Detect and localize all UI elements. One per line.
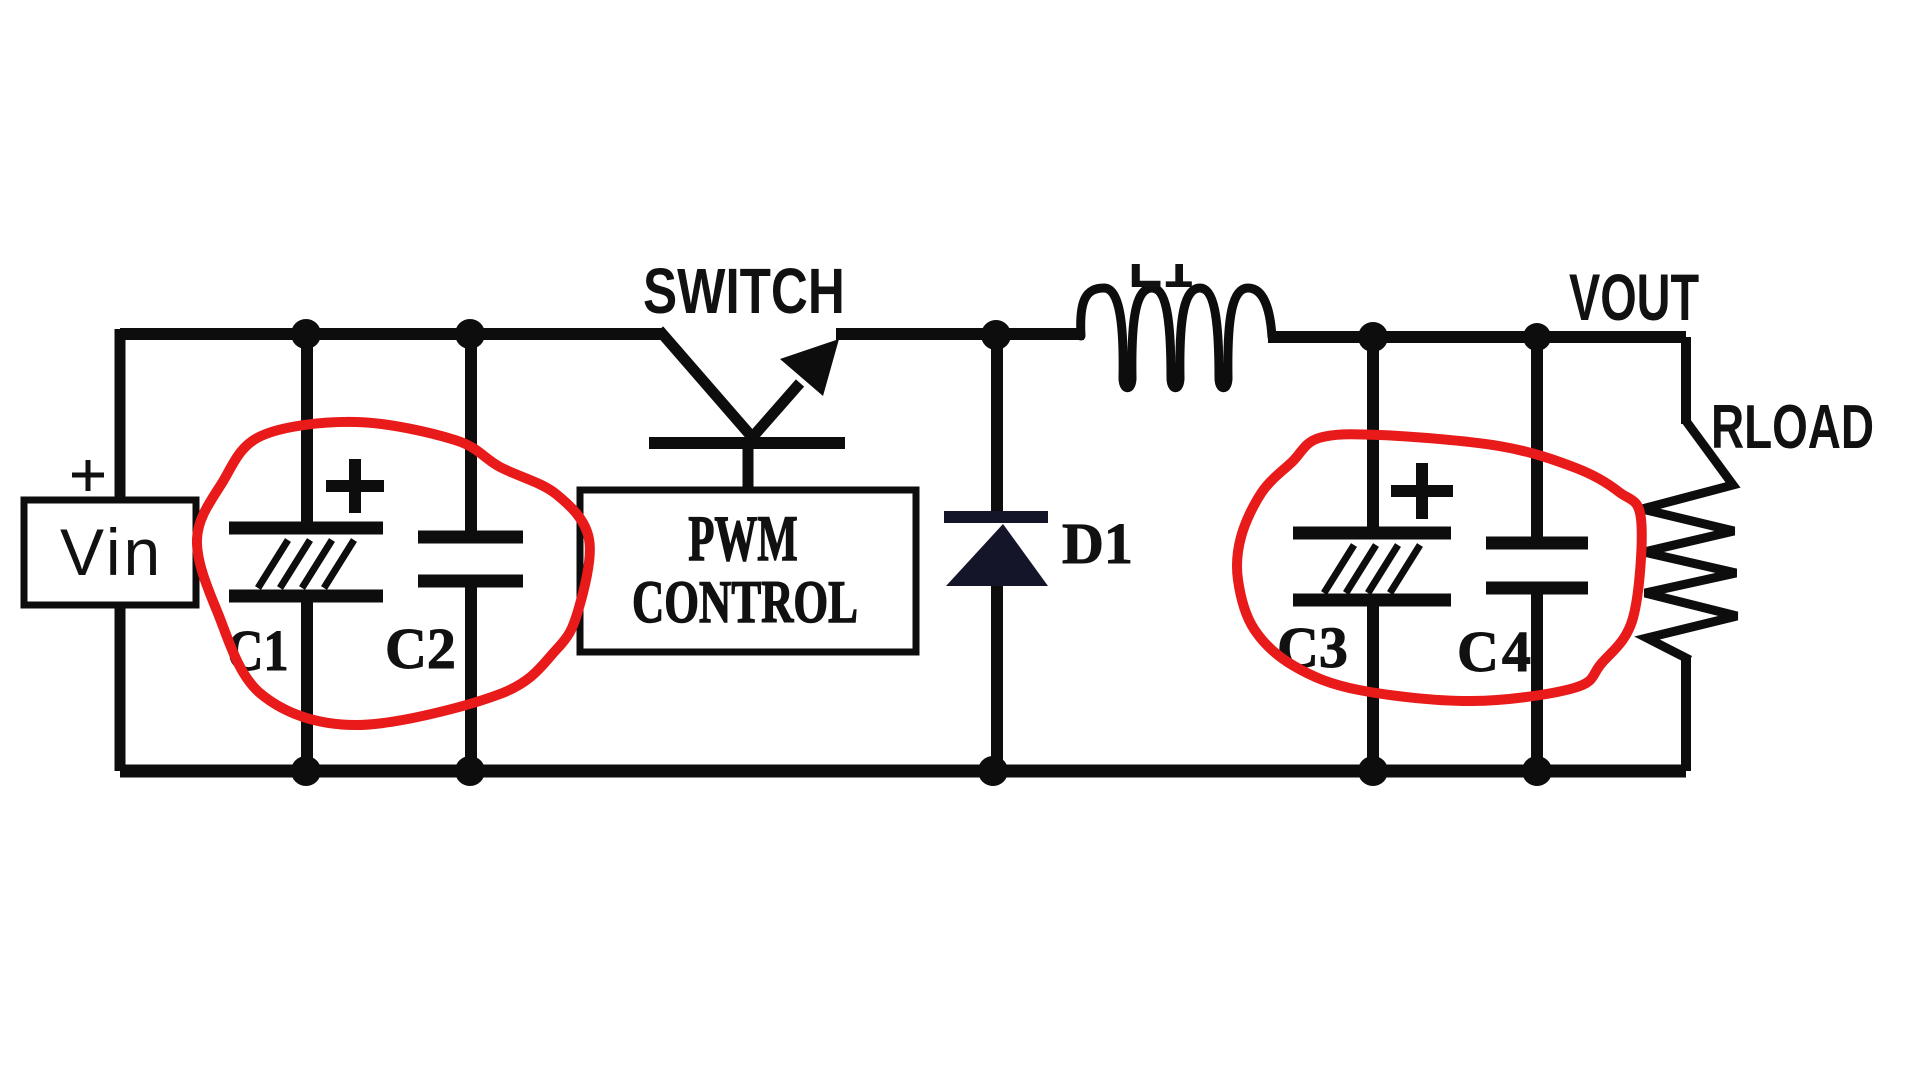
- capacitor C4 top plate: [1486, 537, 1588, 550]
- svg-text:D1: D1: [1062, 511, 1133, 576]
- capacitor C2 wire lower: [465, 578, 477, 771]
- wire left vertical: [115, 329, 126, 771]
- node bottom D1: [978, 756, 1008, 786]
- inductor L1 clipped label: [1108, 228, 1213, 299]
- capacitor C1 wire upper: [301, 334, 313, 524]
- red annotation loop around C3 C4: [1237, 434, 1642, 701]
- svg-text:VOUT: VOUT: [1569, 261, 1699, 335]
- capacitor C4 wire upper: [1531, 337, 1543, 543]
- node top C1: [291, 319, 321, 349]
- resistor RLOAD zigzag: [1642, 421, 1737, 660]
- svg-text:C2: C2: [385, 616, 456, 681]
- svg-text:RLOAD: RLOAD: [1711, 392, 1874, 461]
- Vin source box: [24, 500, 196, 605]
- node bottom C2: [455, 756, 485, 786]
- capacitor C3 top plate: [1293, 527, 1451, 540]
- switch left diagonal: [659, 330, 752, 437]
- capacitor C2 bottom plate: [418, 575, 523, 588]
- node top C2: [455, 319, 485, 349]
- svg-text:PWM: PWM: [688, 502, 798, 574]
- capacitor C2 wire upper: [465, 334, 477, 534]
- node top C3: [1358, 322, 1388, 352]
- svg-text:SWITCH: SWITCH: [643, 257, 845, 328]
- capacitor C3 bottom plate: [1293, 594, 1451, 607]
- capacitor C3 plus mark: [1391, 463, 1453, 519]
- node bottom C1: [291, 756, 321, 786]
- svg-text:CONTROL: CONTROL: [632, 570, 858, 636]
- switch stem to PWM: [743, 449, 754, 492]
- svg-text:C4: C4: [1457, 619, 1534, 684]
- diode D1 wire lower: [991, 583, 1003, 771]
- red annotation loop around C1 C2: [197, 422, 590, 725]
- PWM control box: [580, 490, 916, 652]
- capacitor C1 wire lower: [301, 600, 313, 771]
- capacitor C3 wire lower: [1367, 600, 1379, 771]
- wire bottom rail: [120, 765, 1686, 778]
- capacitor C2 top plate: [418, 531, 523, 544]
- wire top rail middle section (switch to D1 node): [836, 328, 1084, 340]
- capacitor C1 bottom plate: [229, 590, 383, 603]
- switch arrow head: [780, 339, 839, 396]
- switch arrow shaft: [750, 383, 800, 440]
- Vin plus polarity mark: [72, 460, 104, 491]
- wire right vertical RLOAD branch bottom: [1681, 658, 1691, 771]
- capacitor C4 wire lower: [1531, 588, 1543, 771]
- node top D1: [981, 320, 1011, 350]
- wire right vertical RLOAD branch top: [1681, 337, 1691, 424]
- capacitor C3 wire upper: [1367, 337, 1379, 530]
- switch base bar: [649, 437, 845, 449]
- node top VOUT: [1523, 323, 1551, 351]
- wire top rail left section: [120, 328, 662, 340]
- node bottom C3: [1358, 756, 1388, 786]
- capacitor C1 plus mark: [326, 459, 384, 513]
- svg-text:Vin: Vin: [60, 515, 163, 589]
- diode D1 cathode bar: [944, 511, 1048, 523]
- capacitor C3 hatch: [1324, 545, 1420, 593]
- wire top rail right section (inductor to right corner): [1268, 331, 1686, 343]
- capacitor C4 bottom plate: [1486, 582, 1588, 595]
- diode D1 triangle: [946, 524, 1048, 586]
- node bottom C4: [1522, 756, 1552, 786]
- capacitor C1 hatch: [258, 540, 354, 588]
- diode D1 wire upper: [991, 335, 1003, 516]
- inductor L1 coil: [1081, 288, 1272, 388]
- capacitor C1 top plate: [229, 522, 383, 535]
